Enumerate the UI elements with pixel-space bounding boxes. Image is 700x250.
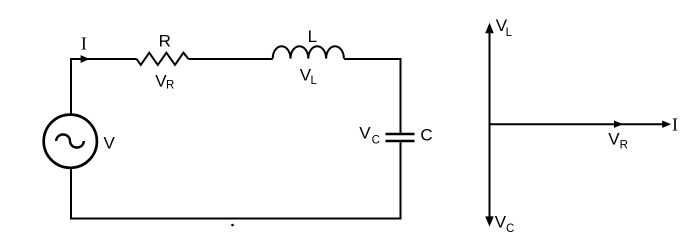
svg-text:R: R	[166, 80, 174, 92]
svg-text:I: I	[672, 115, 678, 135]
svg-text:L: L	[311, 75, 318, 87]
svg-text:V: V	[359, 124, 371, 143]
svg-text:L: L	[506, 27, 513, 39]
svg-text:R: R	[159, 32, 171, 51]
svg-text:R: R	[620, 140, 628, 152]
svg-text:C: C	[372, 134, 380, 146]
svg-text:V: V	[495, 213, 507, 232]
svg-text:C: C	[506, 223, 514, 235]
svg-text:C: C	[420, 126, 432, 145]
svg-text:I: I	[81, 34, 87, 54]
svg-text:V: V	[608, 129, 620, 148]
svg-text:L: L	[308, 27, 317, 46]
svg-text:V: V	[104, 133, 116, 152]
